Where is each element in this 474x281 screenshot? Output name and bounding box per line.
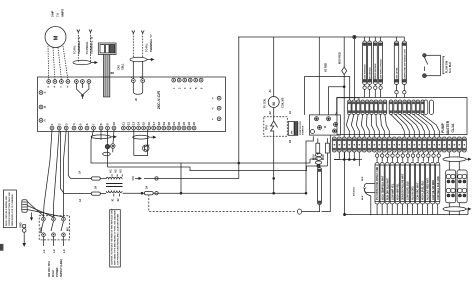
pickup terminal (filled) (105, 144, 109, 167)
svg-text:TERMINAL "B": TERMINAL "B" (90, 35, 94, 54)
wire label COM SEAL FAIL GRN (436, 163, 440, 205)
junction dot enclosure/busA (238, 162, 240, 164)
ribbon cable (104, 54, 110, 97)
terminal circle on bus D (155, 192, 158, 195)
svg-text:AIR SW BLK: AIR SW BLK (369, 67, 372, 80)
wire label TO PROG TERMINAL B (85, 30, 94, 63)
svg-text:LOW LEVEL BLK: LOW LEVEL BLK (408, 181, 410, 200)
edge tab marker (0, 244, 3, 251)
motor rating label 3HP 7.6 AMPS (51, 9, 65, 17)
svg-text:RUN DRY BLK WHT: RUN DRY BLK WHT (387, 178, 389, 200)
wires lug to motor starter (27, 202, 63, 218)
wire label HIGH TEMP BLK WHT (380, 163, 384, 205)
board top terminal pair (131, 76, 145, 83)
svg-text:10: 10 (112, 122, 116, 125)
svg-text:M: M (54, 35, 60, 40)
transistor symbol Q1 (143, 144, 150, 151)
wire from board to fuse F1 (68, 131, 91, 178)
svg-text:COPPER CONDUCTORS ONLY USE: COPPER CONDUCTORS ONLY USE (9, 191, 11, 226)
module fan-out wires group 1 (346, 115, 389, 138)
junction dot coil/busC (273, 178, 275, 180)
fuse holder block 2 (457, 170, 467, 203)
module fan-out wires group 2 (391, 115, 439, 138)
note box (left, field wiring note) (3, 190, 16, 228)
svg-text:7.6: 7.6 (56, 13, 60, 17)
wire label pill AIR SW BLK (368, 41, 372, 85)
svg-text:HIGH LEVEL BLK: HIGH LEVEL BLK (423, 180, 425, 200)
label A2 (269, 111, 272, 115)
wire label pill LOW LEVEL (394, 41, 398, 85)
board right edge terminals (212, 96, 221, 121)
svg-text:16: 16 (147, 122, 151, 125)
fuse F2 (79, 186, 100, 202)
svg-text:23: 23 (182, 122, 186, 125)
arrow marker near transformer top (133, 176, 141, 181)
wire label TO PROG TERMINAL C (132, 31, 135, 58)
svg-text:CA3: CA3 (118, 64, 121, 70)
svg-text:CBL1: CBL1 (122, 63, 125, 70)
svg-text:3A: 3A (146, 186, 149, 189)
svg-text:TO P.U.: TO P.U. (145, 43, 149, 52)
svg-text:COMPOUND SW WHBLK GRY: COMPOUND SW WHBLK GRY (404, 48, 406, 80)
wires MOV down (307, 153, 328, 166)
nested routing wires to socket (305, 37, 360, 137)
wire label HIGH LEVEL BLK (420, 163, 424, 205)
wire with arrow below lug (31, 213, 33, 221)
splice diamond (342, 37, 347, 87)
svg-text:N.O. BLK: N.O. BLK (449, 62, 452, 73)
transformer T1 primary labels H1 H2 H3 (110, 169, 123, 173)
wire socket right leg (322, 135, 331, 212)
transformer T1 (100, 174, 122, 196)
wire label SENSOR FAILURE WHT (400, 163, 404, 205)
label CA1 CA3 (118, 63, 125, 70)
svg-text:3 HP: 3 HP (51, 11, 55, 17)
wire label LOW OIL SW BRN (431, 163, 435, 205)
svg-text:24: 24 (187, 122, 191, 125)
aux text column (300, 121, 305, 135)
svg-text:MASTER: MASTER (446, 120, 450, 135)
svg-text:CAUTION: TO REDUCE THE RISK O: CAUTION: TO REDUCE THE RISK OF FIRE REPL… (110, 208, 113, 265)
module edge connector row (332, 137, 466, 152)
svg-text:TPS: TPS (266, 125, 269, 130)
cable marker ellipse bottom right (443, 207, 471, 212)
fuse holder block 1 (446, 170, 456, 203)
module internal connector pins group 1 (348, 100, 387, 115)
motor starter MS (dashed box) (39, 216, 69, 240)
pickup terminal (open) (111, 144, 115, 153)
wires terminals 14-15 down (134, 130, 148, 156)
svg-text:AUX OUT RED WHT: AUX OUT RED WHT (427, 177, 430, 200)
board bottom terminal labels (50, 122, 196, 125)
cable marker on dashed wire (298, 209, 302, 214)
svg-text:B: B (44, 106, 46, 109)
module name PUMP MASTER CL1A (441, 120, 455, 135)
motor M1 (45, 27, 66, 48)
ground terminal GRD (20, 222, 27, 246)
pressure switch TPS (dashed box) (264, 117, 288, 137)
board name 26C-V-C/R (157, 91, 161, 110)
svg-text:1A: 1A (79, 199, 82, 202)
junction dot bus left (344, 213, 346, 215)
svg-text:BLK: BLK (362, 195, 364, 200)
wire label TO PROG TERMINAL D (141, 31, 153, 58)
svg-text:MS: MS (67, 227, 70, 231)
svg-text:LOW WTR BLK: LOW WTR BLK (365, 64, 367, 80)
module spare pins (424, 100, 434, 115)
varistor ellipse marks (315, 153, 321, 167)
svg-text:LOW OIL SW BRN: LOW OIL SW BRN (433, 180, 435, 200)
fuse F1 (79, 171, 101, 180)
label 88 (111, 71, 115, 75)
svg-text:TO P.U.: TO P.U. (73, 45, 77, 54)
board top terminals (motor group) (47, 80, 70, 89)
label MOV RED (339, 52, 342, 64)
wire terminal to bus A (91, 130, 94, 163)
wire label RUN DRY BLK WHT (385, 163, 389, 205)
board left edge terminals (39, 91, 46, 123)
svg-text:60 HZ: 60 HZ (52, 270, 55, 277)
svg-text:13: 13 (132, 122, 136, 125)
svg-text:COM ORG WHT: COM ORG WHT (418, 182, 420, 200)
wires from terminals 1-3 down to motor starter (44, 130, 67, 217)
svg-text:19: 19 (162, 122, 166, 125)
svg-text:L1: L1 (42, 249, 46, 253)
module internal connector pins group 2 (389, 100, 424, 115)
svg-text:12: 12 (127, 122, 131, 125)
wires to board terminals L (133, 61, 142, 79)
wire label P1 CONTACTOR 480VAC GRN (375, 163, 379, 205)
svg-text:MOV: MOV (322, 154, 325, 160)
sensor loop wire (134, 139, 148, 156)
board bottom terminal row (50, 126, 196, 130)
svg-text:CL1A: CL1A (451, 123, 455, 132)
label J6 (135, 98, 138, 101)
internal selector switch (76, 83, 89, 99)
wire module left leg (344, 153, 346, 215)
svg-text:SENSOR FAILURE WHT: SENSOR FAILURE WHT (401, 173, 404, 200)
svg-text:STARTER: STARTER (302, 125, 305, 135)
wire junction into module (353, 39, 355, 100)
relay socket R (309, 115, 340, 135)
wire label AUX IN ORG (410, 163, 414, 205)
wire TPS down (273, 136, 275, 178)
flow switch label (443, 57, 452, 74)
svg-text:P1 CONTACTOR 480VAC GRN: P1 CONTACTOR 480VAC GRN (376, 166, 379, 200)
wires L1 L2 L3 down (44, 237, 64, 247)
connector CA1 (ribbon plug) (98, 43, 116, 54)
wire label TO P.U. TERMINAL A (73, 30, 82, 63)
wire coil to TPS (273, 108, 275, 117)
terminal circles under pill group 1 (363, 85, 382, 98)
svg-text:88: 88 (111, 71, 115, 75)
wires terminals 9-11 down (101, 130, 114, 145)
svg-text:26C-V-C/R: 26C-V-C/R (157, 91, 161, 110)
wire label pill group 1 stubs (365, 37, 381, 41)
MOV2 (322, 138, 329, 160)
terminal circles under pill group 2 (395, 85, 406, 98)
svg-text:P1 COIL: P1 COIL (264, 98, 267, 108)
capacitor ellipse (103, 152, 111, 155)
svg-text:FOR PROPER FUSE RATING AND LOC: FOR PROPER FUSE RATING AND LOCATION SHOW… (116, 213, 119, 265)
junction node on top wire (353, 35, 356, 38)
note box (vertical, fuse replacement note) (110, 208, 121, 267)
svg-text:TERMINAL "C": TERMINAL "C" (149, 33, 153, 52)
wire coil stem down (273, 178, 275, 193)
wire label LOW LEVEL BLK (405, 163, 409, 205)
cable marker ellipse with arrow (73, 60, 97, 64)
svg-text:TO PROG.: TO PROG. (85, 41, 89, 54)
wire label pill LOW WTR BLK (363, 41, 367, 85)
svg-text:POWER: POWER (56, 267, 59, 277)
svg-text:LOW WTR CUT BLK: LOW WTR CUT BLK (381, 59, 383, 80)
junction dot F3 (141, 192, 143, 194)
fuse F3 (144, 186, 153, 195)
svg-text:WIRE RATED FOR 75 C MINIMUM: WIRE RATED FOR 75 C MINIMUM (11, 194, 14, 226)
svg-text:14: 14 (137, 122, 141, 125)
terminal circle on bus C (155, 177, 158, 180)
MOV1 (313, 138, 320, 160)
wire from board to fuse F2 (61, 131, 92, 194)
wire label pill group 2 stubs (397, 37, 405, 41)
cable marker ellipse 2 (130, 57, 154, 61)
wire bus C y178 (coil return) (144, 163, 239, 178)
svg-text:MOV RED: MOV RED (339, 52, 342, 64)
svg-text:AMPS: AMPS (61, 9, 65, 17)
label A2 RED (325, 63, 328, 72)
wire module left leg 2 (334, 152, 339, 160)
svg-text:15: 15 (142, 122, 146, 125)
wire label HIGH AMP YEL (395, 163, 399, 205)
wire label pill PRESS SW BLK (373, 41, 377, 85)
wire dashed to label pill (302, 205, 320, 212)
svg-text:25: 25 (192, 122, 196, 125)
flow switch FS (423, 54, 441, 78)
power supply label 460VAC 3PH 60HZ (48, 259, 63, 277)
transformer secondary labels X1 X2 (111, 198, 120, 202)
hatched label block (294, 122, 297, 136)
wire bus D y193 (secondary) (153, 136, 313, 193)
wire label pill COMPOUND SW WHBLK GRY (402, 41, 406, 85)
svg-text:C: C (44, 119, 46, 122)
long wire label pill (318, 168, 322, 205)
svg-text:18: 18 (157, 122, 161, 125)
svg-text:PM: PM (292, 131, 294, 134)
aux contact block (288, 122, 294, 136)
board top-right terminal strip (172, 78, 204, 89)
svg-text:20: 20 (167, 122, 171, 125)
svg-text:SUPPLY (LINE): SUPPLY (LINE) (60, 259, 63, 277)
svg-text:COM SEAL FAIL GRN: COM SEAL FAIL GRN (437, 176, 440, 200)
labels A1 A2 near aux (289, 110, 292, 143)
svg-text:WITH SAME TYPE AND RATING OF F: WITH SAME TYPE AND RATING OF FUSE. SEE D… (113, 210, 116, 265)
wires pills to bottom bus (377, 204, 438, 215)
wire label COM ORG WHT (415, 163, 419, 205)
svg-text:BLK: BLK (362, 176, 364, 181)
cable marker ellipse top right (443, 157, 471, 162)
svg-text:PUMP: PUMP (441, 122, 445, 133)
junction dot bus D2 (305, 192, 307, 194)
svg-text:A2 RED: A2 RED (325, 63, 328, 72)
wire label AUX OUT RED WHT (426, 163, 430, 205)
junction dot bus D (273, 192, 275, 194)
svg-text:TERMINAL "A": TERMINAL "A" (77, 35, 81, 54)
control board 26C-V-C/R outline (38, 77, 226, 132)
svg-text:HIGH TEMP BLK WHT: HIGH TEMP BLK WHT (382, 175, 384, 200)
enclosure left wire (238, 37, 240, 163)
svg-text:AUX IN ORG: AUX IN ORG (412, 186, 415, 200)
svg-text:LOW AMP YEL: LOW AMP YEL (391, 183, 394, 200)
svg-text:NOTE: FOR FIELD WIRING USE: NOTE: FOR FIELD WIRING USE (6, 195, 8, 226)
svg-text:17: 17 (152, 122, 156, 125)
cable marker ellipse 3 with arrow (133, 135, 156, 139)
svg-text:21: 21 (172, 122, 176, 125)
svg-text:L3: L3 (62, 249, 66, 253)
svg-text:L2: L2 (52, 249, 56, 253)
junction dot branch (180, 192, 182, 194)
svg-text:460 VAC 3PH: 460 VAC 3PH (48, 261, 51, 277)
ground lug connector (22, 200, 27, 213)
wire right column to bus (467, 210, 469, 215)
enclosure top wire (238, 36, 404, 38)
terminal circles below connector (375, 152, 440, 162)
svg-text:3A: 3A (95, 186, 98, 189)
wire bus A y163 (91, 159, 310, 163)
cable marker ellipse below terminals (91, 135, 116, 139)
jumper loop under pair (133, 83, 142, 95)
motor lead wires (dashed) (48, 46, 68, 80)
svg-text:A: A (44, 92, 46, 95)
svg-text:LOW LEVEL: LOW LEVEL (397, 67, 399, 80)
wire label LOW AMP YEL (390, 163, 394, 205)
bottom bus wire (345, 214, 468, 216)
svg-text:BT-M181: BT-M181 (354, 186, 356, 196)
svg-text:MAG: MAG (40, 227, 43, 233)
collector wire under connector (334, 152, 362, 166)
wire label pill LOW WTR CUT BLK (379, 41, 383, 85)
labels L1 L2 L3 (42, 249, 66, 253)
wire secondary to fuse F3 (123, 192, 145, 194)
wire branch bus A to bus D (180, 163, 182, 193)
svg-text:GRD: GRD (20, 222, 23, 228)
svg-text:22: 22 (177, 122, 181, 125)
svg-text:COIL MS: COIL MS (282, 97, 285, 108)
wire socket to label pill (319, 167, 321, 168)
svg-text:HIGH AMP YEL: HIGH AMP YEL (396, 183, 399, 200)
module PUMP MASTER CL1A outline (337, 98, 467, 135)
dashed control wire (149, 195, 296, 212)
wire bus B y167-170 (108, 166, 307, 171)
board top terminals (switch group) (75, 80, 91, 84)
contactor coil P1 (264, 37, 285, 108)
right column riser wires (449, 152, 459, 215)
svg-text:PRESS SW BLK: PRESS SW BLK (375, 63, 377, 80)
svg-text:1A: 1A (79, 171, 82, 174)
inline connector BT-M181 (354, 176, 375, 215)
